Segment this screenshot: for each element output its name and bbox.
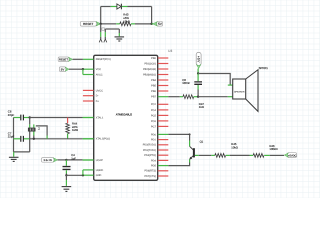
value label R43 10k xyxy=(123,13,130,24)
svg-text:PB1(SCK): PB1(SCK) xyxy=(144,62,156,65)
svg-text:D-: D- xyxy=(96,95,99,98)
capacitor C7 xyxy=(14,136,30,142)
transistor Q1 xyxy=(189,146,194,159)
wire xyxy=(82,69,84,74)
svg-text:PC2: PC2 xyxy=(151,103,156,106)
svg-text:RESET(PC1): RESET(PC1) xyxy=(96,58,111,61)
right pin labels xyxy=(143,57,157,178)
pin D+ left red xyxy=(83,100,94,102)
pin UVCC left red xyxy=(83,89,94,91)
wire xyxy=(100,7,102,24)
svg-text:RESET: RESET xyxy=(59,59,68,62)
svg-text:1uF: 1uF xyxy=(71,156,76,160)
wire xyxy=(264,154,270,156)
wire xyxy=(82,170,84,175)
svg-text:5V: 5V xyxy=(61,68,65,72)
wire xyxy=(189,159,191,162)
value label R46 100k xyxy=(269,144,277,151)
ground xyxy=(9,157,19,161)
svg-text:PB7: PB7 xyxy=(151,95,156,98)
value label C7 22pF xyxy=(8,131,15,138)
svg-text:RESET: RESET xyxy=(83,22,93,26)
svg-text:PD0: PD0 xyxy=(151,133,156,136)
pin VCC left green xyxy=(83,68,94,70)
svg-text:XTAL1: XTAL1 xyxy=(96,116,104,119)
svg-text:1kΩ: 1kΩ xyxy=(199,105,204,109)
junction xyxy=(29,116,31,118)
svg-text:GND: GND xyxy=(96,174,102,177)
capacitor C4 xyxy=(63,160,71,175)
net flag RESET (top) xyxy=(80,21,100,26)
wire XTAL1 net xyxy=(30,117,83,119)
svg-text:PD4(PTO): PD4(PTO) xyxy=(144,154,156,157)
pin UCAP left green xyxy=(83,159,94,161)
base wire xyxy=(195,154,199,156)
svg-text:PB6: PB6 xyxy=(151,90,156,93)
pin RESET(PC1) left green xyxy=(83,58,94,60)
resistor R47 xyxy=(183,95,194,99)
wire to speaker pin1 xyxy=(198,74,230,86)
svg-text:PD4: PD4 xyxy=(151,159,156,162)
wire xyxy=(65,175,67,180)
svg-text:PD6(RTS): PD6(RTS) xyxy=(144,170,156,173)
svg-text:100kΩ: 100kΩ xyxy=(269,147,277,151)
wire GND net xyxy=(66,174,83,176)
wire xyxy=(152,23,154,25)
wire xyxy=(73,58,83,60)
svg-text:PD1: PD1 xyxy=(151,139,156,142)
svg-text:10kΩ: 10kΩ xyxy=(231,145,238,149)
ground xyxy=(115,37,125,41)
svg-text:PC6: PC6 xyxy=(151,120,156,123)
svg-text:22pF: 22pF xyxy=(8,135,15,139)
right red pins PC2-PC7 xyxy=(158,104,169,126)
svg-text:ATMEGA8U2: ATMEGA8U2 xyxy=(116,113,133,117)
pin PD5 wire green xyxy=(158,165,169,167)
junction xyxy=(82,174,84,176)
value label C8 100nF xyxy=(182,78,190,85)
wire xyxy=(194,96,199,98)
svg-text:3.3v IN: 3.3v IN xyxy=(43,159,51,162)
svg-text:1MΩ: 1MΩ xyxy=(72,128,78,132)
switch S1 pin wire xyxy=(100,24,102,32)
svg-text:100nF: 100nF xyxy=(182,81,190,85)
svg-text:XTAL2(PC0): XTAL2(PC0) xyxy=(96,138,110,141)
svg-text:UGND: UGND xyxy=(96,169,104,172)
junction xyxy=(65,159,67,161)
wire left rail xyxy=(13,118,15,152)
value label R45 10k xyxy=(231,142,238,149)
svg-text:+5VDC: +5VDC xyxy=(288,154,297,157)
value label C4 1uF xyxy=(71,153,76,160)
ground xyxy=(62,187,72,192)
switch S1 pin wire xyxy=(104,29,106,32)
wire to speaker pin2 xyxy=(198,96,228,98)
junction xyxy=(100,23,102,25)
capacitor C8 xyxy=(194,74,202,97)
svg-text:PD3(TXD1): PD3(TXD1) xyxy=(143,149,156,152)
wire xyxy=(101,6,111,8)
pin XTAL1 left green xyxy=(83,117,94,119)
wire end fork xyxy=(104,39,107,42)
pin PB7 wire green xyxy=(158,96,169,98)
wire to ground xyxy=(14,151,30,153)
resistor R44 xyxy=(66,118,70,139)
wire xyxy=(131,23,135,25)
net flag 5V (to VCC) xyxy=(59,67,69,72)
switch S1 body xyxy=(102,28,105,30)
wire xyxy=(58,159,67,161)
net flag 3.3v IN xyxy=(42,158,58,163)
svg-text:PD5: PD5 xyxy=(151,165,156,168)
crystal Y2 xyxy=(28,118,35,152)
net flag 5V xyxy=(153,21,163,26)
net flag +5V vertical xyxy=(196,52,201,68)
right red pins PB0-PB6 xyxy=(158,58,169,91)
svg-text:SPEAKER: SPEAKER xyxy=(234,90,245,93)
wire XTAL2 net xyxy=(30,138,83,140)
junction xyxy=(82,68,84,70)
resistor R46 xyxy=(253,154,264,158)
svg-text:VCC: VCC xyxy=(96,68,101,71)
junction xyxy=(33,138,35,140)
svg-text:PD7(CTS): PD7(CTS) xyxy=(144,175,156,178)
resistor R45 xyxy=(215,154,226,158)
junction xyxy=(150,23,152,25)
wire xyxy=(122,6,128,8)
wire crystal case xyxy=(36,126,47,136)
value label R44 1M xyxy=(72,121,78,132)
wire xyxy=(151,7,153,24)
wire xyxy=(168,133,189,135)
pin D- left red xyxy=(83,95,94,97)
svg-text:PB4: PB4 xyxy=(151,79,156,82)
junction xyxy=(197,96,199,98)
wire xyxy=(101,23,117,25)
resistor R43 xyxy=(120,22,131,26)
pin AVCC left green xyxy=(83,74,94,76)
svg-text:PC4: PC4 xyxy=(151,109,156,112)
svg-text:PB3(MISO): PB3(MISO) xyxy=(143,73,156,76)
op-amp U3 ATMEGA8U2 IC body xyxy=(94,55,158,180)
svg-text:PB2(MOSI): PB2(MOSI) xyxy=(143,68,156,71)
junction xyxy=(65,174,67,176)
wire xyxy=(168,96,180,98)
svg-text:UVCC: UVCC xyxy=(96,89,103,92)
pin PC0 left green xyxy=(83,138,94,140)
svg-text:U3: U3 xyxy=(168,49,172,53)
pin GND left green xyxy=(83,174,94,176)
svg-text:D+: D+ xyxy=(96,100,100,103)
wire xyxy=(189,134,191,140)
wire xyxy=(197,69,199,74)
right red pins PD group xyxy=(158,140,169,176)
svg-text:PB0: PB0 xyxy=(151,57,156,60)
svg-text:+5V: +5V xyxy=(197,56,201,63)
svg-text:PC7: PC7 xyxy=(151,125,156,128)
svg-text:UCAP: UCAP xyxy=(96,159,103,162)
speaker pin stub xyxy=(228,96,233,98)
svg-text:PD2(RXD1): PD2(RXD1) xyxy=(143,144,156,147)
diode D1 xyxy=(117,4,122,10)
svg-text:10kΩ: 10kΩ xyxy=(123,20,130,24)
speaker SPKR1 xyxy=(233,70,258,112)
wire xyxy=(226,154,230,156)
svg-text:Q1: Q1 xyxy=(200,141,204,144)
net flag RESET (to pin) xyxy=(58,57,72,62)
left pin labels xyxy=(96,58,111,177)
bendpoint xyxy=(189,133,191,135)
wire xyxy=(69,68,83,70)
capacitor C6 xyxy=(14,115,30,121)
value label C6 22pF xyxy=(8,110,15,117)
pin PD0 wire green xyxy=(158,133,169,135)
junction xyxy=(197,72,199,74)
wire xyxy=(105,28,119,30)
svg-text:PC5: PC5 xyxy=(151,114,156,117)
speaker pin stub xyxy=(228,84,233,86)
svg-text:AVCC: AVCC xyxy=(96,73,103,76)
wire to UCAP xyxy=(66,159,82,161)
pin UGND left green xyxy=(83,169,94,171)
value label R47 1k xyxy=(199,102,205,109)
svg-text:22pF: 22pF xyxy=(8,113,15,117)
svg-text:SPKR1: SPKR1 xyxy=(259,66,269,70)
svg-text:PB5: PB5 xyxy=(151,84,156,87)
net flag +5VDC xyxy=(284,153,296,158)
wire end fork xyxy=(99,39,102,42)
wire xyxy=(118,29,120,33)
